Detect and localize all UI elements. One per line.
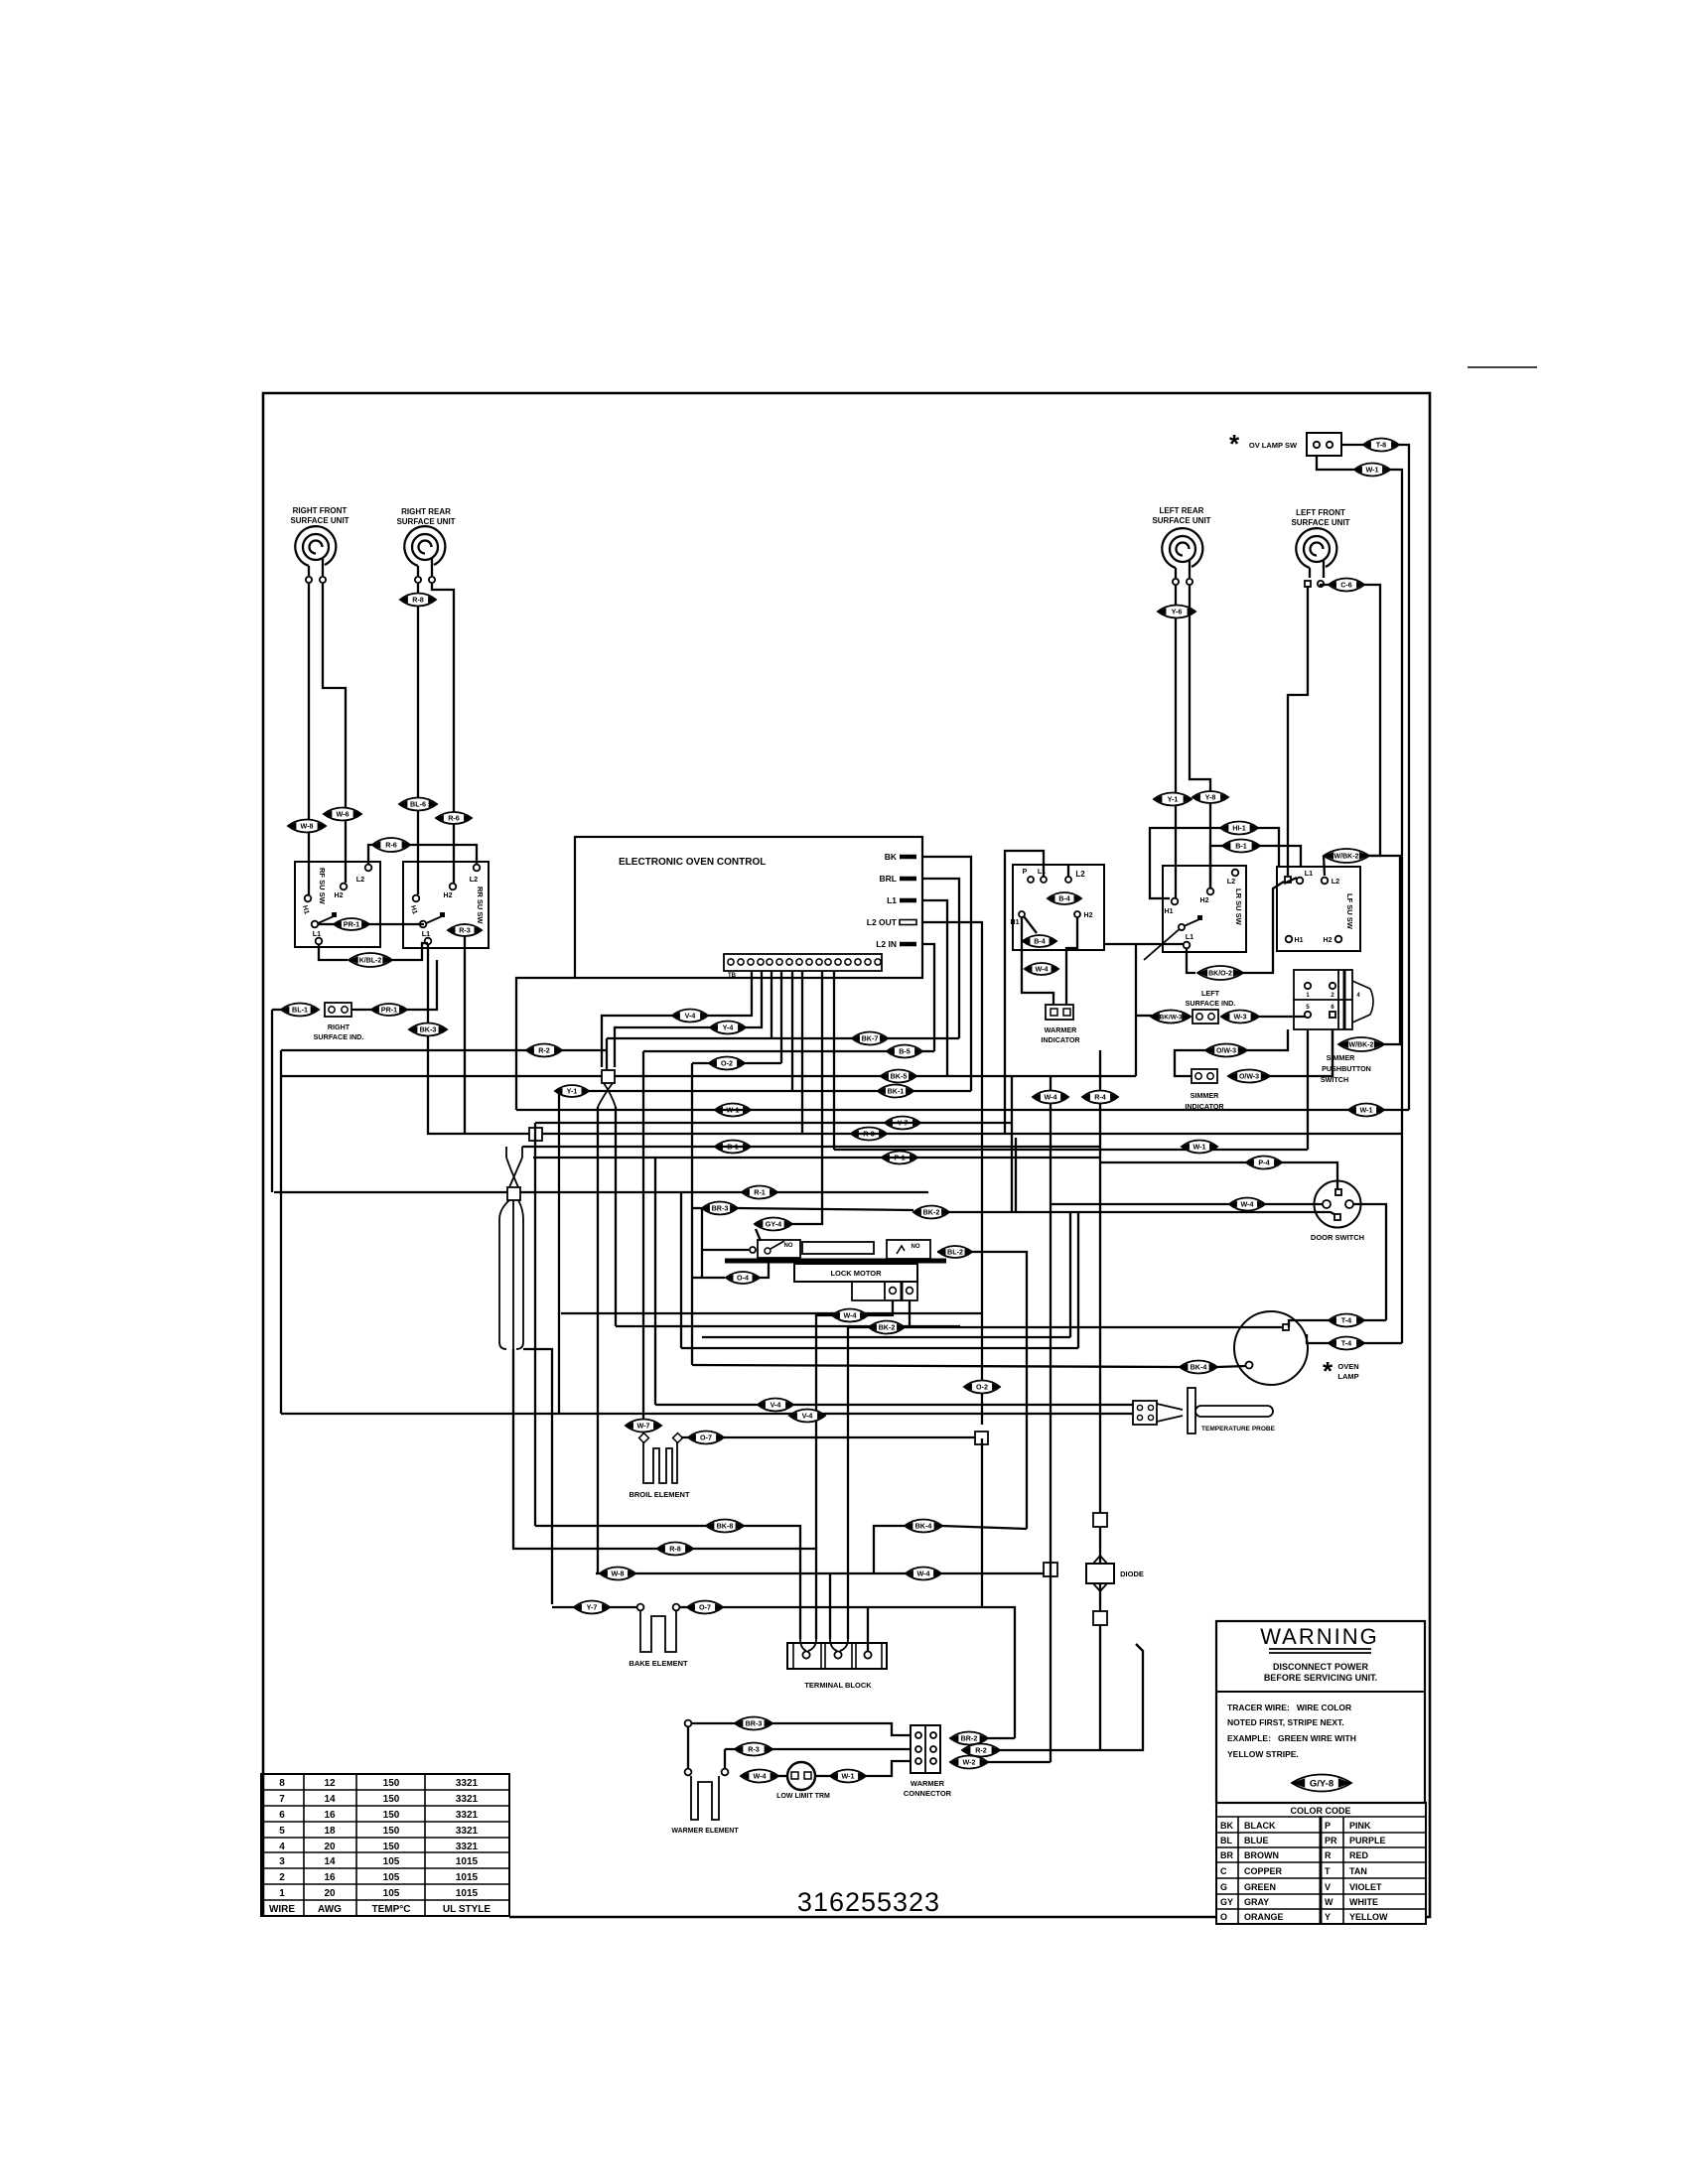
svg-text:OV LAMP SW: OV LAMP SW (1249, 441, 1298, 450)
svg-text:Y-6: Y-6 (1172, 608, 1183, 616)
label warmer connector 2 (904, 1789, 952, 1798)
right front surface unit switch RF SU SW (295, 862, 380, 947)
wire capsule center down (513, 1349, 523, 1549)
eoc strip pin 9 (806, 959, 812, 965)
lf coil terminal 2 (1318, 581, 1324, 587)
rr sw L2 (474, 865, 481, 872)
junction square O7 (975, 1432, 988, 1444)
wire row 1336 (616, 1325, 960, 1327)
connector R-3 warmer (735, 1743, 772, 1756)
svg-text:BROWN: BROWN (1244, 1850, 1279, 1860)
svg-text:L2 IN: L2 IN (876, 939, 897, 949)
wire rf coil t1 down to H1 (308, 584, 310, 894)
wire warmer L2 up (1067, 865, 1069, 877)
ov lamp sw pin 1 (1314, 442, 1320, 448)
svg-text:1: 1 (279, 1888, 285, 1899)
lf h1 label (1295, 937, 1304, 944)
wire V-4 probe row (655, 1404, 758, 1406)
connector BK-2 lamp (869, 1321, 905, 1334)
oven lamp switch OV LAMP SW (1307, 433, 1341, 456)
wire row 1118 (516, 1109, 1409, 1111)
wire rr L1 down (428, 944, 465, 1134)
svg-text:V-4: V-4 (802, 1412, 813, 1421)
svg-text:L1: L1 (313, 929, 321, 938)
warmer sw P (1028, 877, 1034, 883)
wire row 1560 (523, 1548, 657, 1550)
svg-text:R: R (1325, 1850, 1332, 1860)
lr sw H2 (1207, 888, 1214, 895)
connector BK-8 (706, 1520, 744, 1533)
junction square 3 (507, 1187, 520, 1200)
lr sw L2 (1232, 870, 1239, 877)
connector BL-1 (281, 1004, 319, 1017)
wire row 1166 (533, 1157, 1100, 1159)
svg-text:T-8: T-8 (1376, 441, 1386, 450)
wire L1 exit (922, 900, 947, 1076)
svg-text:TAN: TAN (1349, 1866, 1367, 1876)
warmer conn pin 2 (915, 1746, 921, 1752)
connector W-1 mid (1182, 1141, 1217, 1154)
wire row 1142 right (542, 1133, 1402, 1135)
svg-text:WIRE: WIRE (269, 1904, 295, 1915)
lock motor no-switch left (758, 1240, 800, 1258)
eoc strip pin 1 (728, 959, 734, 965)
label oven lamp 1 (1337, 1362, 1358, 1371)
connector G/Y-8 example (1292, 1775, 1351, 1792)
connector V-4 probe2 (789, 1410, 825, 1423)
simmer indicator lamp (1192, 1069, 1217, 1083)
svg-text:RIGHT REAR: RIGHT REAR (401, 507, 451, 516)
label lock motor (830, 1269, 882, 1278)
svg-text:LOW LIMIT TRM: LOW LIMIT TRM (776, 1793, 830, 1800)
left rear surface unit coil (1162, 528, 1202, 578)
svg-text:*: * (1229, 429, 1240, 459)
svg-text:O/W-3: O/W-3 (1216, 1048, 1236, 1055)
broil element terminal 2 (673, 1433, 683, 1443)
label L1 warmer (1038, 869, 1046, 876)
wire rf L1 down to K/BL-2 (319, 944, 348, 960)
wire Y-4 left (615, 1027, 710, 1067)
label warmer indicator 2 (1041, 1035, 1080, 1044)
rf sw L1 (316, 938, 323, 945)
svg-text:W-1: W-1 (841, 1772, 854, 1781)
left rear surface unit switch LR SU SW (1163, 866, 1246, 952)
lr h2 label (1200, 897, 1209, 904)
small square bottom (1093, 1611, 1107, 1625)
wire BR-2 right (988, 1737, 1015, 1739)
svg-text:SIMMER: SIMMER (1191, 1091, 1220, 1100)
wire vert 660 mid (654, 1158, 656, 1405)
wire gauge table (261, 1774, 509, 1916)
junction 3 bowtie (506, 1147, 522, 1187)
svg-text:W-4: W-4 (1035, 965, 1048, 974)
svg-text:105: 105 (383, 1872, 400, 1883)
svg-text:W-4: W-4 (916, 1570, 929, 1578)
simmer pushbutton switch box (1294, 970, 1352, 1029)
connector BK-4 lamp (1180, 1361, 1217, 1374)
svg-text:P-4: P-4 (1258, 1159, 1269, 1167)
door sw right pin (1345, 1200, 1353, 1208)
tracer line 1 (1227, 1703, 1351, 1712)
warmer conn pin 1 (915, 1732, 921, 1738)
eoc strip pin 11 (825, 959, 831, 965)
wire strip pin5 down (791, 971, 793, 1091)
connector BK/W-3 (1151, 1011, 1191, 1024)
connector R-6 L2 link (372, 838, 410, 852)
label left rear 2 (1152, 516, 1210, 525)
svg-text:NO: NO (784, 1243, 793, 1249)
svg-text:GREEN: GREEN (1244, 1882, 1276, 1892)
eoc stub BK (900, 855, 916, 860)
svg-text:R-1: R-1 (754, 1188, 766, 1197)
label simmer pushbutton 1 (1327, 1053, 1356, 1062)
warmer sw H2 (1074, 911, 1080, 917)
wire vert 648 broil (642, 1051, 644, 1433)
svg-text:W-7: W-7 (636, 1422, 649, 1431)
label simmer pushbutton 2 (1322, 1064, 1371, 1073)
connector K/BL-2 (349, 953, 392, 967)
label simmer pushbutton 3 (1321, 1075, 1348, 1084)
connector W-4 below warmer (1025, 963, 1058, 975)
svg-text:DOOR SWITCH: DOOR SWITCH (1311, 1233, 1364, 1242)
svg-text:L1: L1 (1305, 869, 1313, 878)
bake terminal 2 (673, 1604, 680, 1611)
label broil element (629, 1490, 690, 1499)
svg-text:6: 6 (1331, 1005, 1334, 1011)
wire BRL exit (922, 879, 959, 1038)
connector BK-4 low (905, 1520, 942, 1533)
svg-text:150: 150 (383, 1810, 400, 1821)
svg-text:O-7: O-7 (699, 1603, 711, 1612)
connector W-4 door (1229, 1198, 1265, 1211)
warning title (1260, 1624, 1379, 1649)
warmer conn pin 4 (930, 1732, 936, 1738)
svg-text:3321: 3321 (456, 1794, 479, 1805)
wire bake to O-7 (680, 1606, 687, 1608)
connector Y-8 (1193, 791, 1228, 803)
svg-text:Y-7: Y-7 (587, 1603, 598, 1612)
eoc strip pin 4 (758, 959, 764, 965)
wire row 1337 to lamp (905, 1326, 1282, 1328)
svg-text:L1: L1 (887, 895, 897, 905)
wire row 1358 right (1077, 1347, 1079, 1349)
svg-text:H1: H1 (1295, 937, 1304, 944)
connector R-2 (962, 1744, 1000, 1757)
wire left tall bus (280, 1050, 282, 1414)
svg-text:WARMER: WARMER (1045, 1025, 1078, 1034)
wire probe row (281, 1413, 1133, 1415)
svg-text:BK: BK (1220, 1821, 1233, 1831)
wire left edge to BL-1 (272, 1009, 281, 1011)
eoc terminal label L2 OUT (867, 917, 898, 927)
broil element terminal 1 (639, 1433, 649, 1443)
lr l1 label (1186, 932, 1193, 941)
wire vert 1078 (1069, 1213, 1071, 1337)
wire W-3 to pushbutton (1259, 1016, 1308, 1018)
svg-text:W-1: W-1 (1365, 466, 1378, 475)
label left front 2 (1291, 518, 1349, 527)
svg-text:OVEN: OVEN (1337, 1362, 1358, 1371)
svg-text:COPPER: COPPER (1244, 1866, 1283, 1876)
wire warmer mid down (724, 1749, 726, 1768)
lf sw L1 sq (1285, 877, 1291, 883)
connector Y-7 (574, 1601, 610, 1614)
connector V-4 probe1 (758, 1399, 793, 1412)
svg-text:BLACK: BLACK (1244, 1821, 1276, 1831)
connector B-5 (887, 1045, 922, 1058)
svg-text:TEMPERATURE PROBE: TEMPERATURE PROBE (1201, 1426, 1276, 1433)
label right front 2 (290, 516, 349, 525)
label H2 rf (335, 892, 344, 899)
svg-text:H2: H2 (444, 892, 453, 899)
wire BK-4 to lamp (1217, 1366, 1246, 1367)
svg-text:GY-4: GY-4 (766, 1220, 781, 1229)
connector W-1 right bus (1348, 1104, 1384, 1117)
wire row 1201 right (520, 1191, 928, 1193)
wire lf arm (1284, 878, 1297, 884)
pb num 5 (1306, 1005, 1310, 1011)
wire W-8 right (635, 1572, 906, 1574)
svg-text:5: 5 (1306, 1005, 1310, 1011)
connector V-4 mid (672, 1010, 708, 1023)
svg-text:SIMMER: SIMMER (1327, 1053, 1356, 1062)
warmer conn pin 5 (930, 1746, 936, 1752)
wire lock pivot terminal (702, 1249, 749, 1251)
svg-text:H2: H2 (1200, 897, 1209, 904)
bake element coil (640, 1611, 676, 1652)
wire P-4 left (1100, 1161, 1246, 1163)
connector W-1 row1118 (715, 1104, 751, 1117)
connector R-8 low (657, 1543, 693, 1556)
lf sw L2 (1322, 878, 1329, 885)
wire HI-1 left (1150, 828, 1220, 898)
svg-text:PR-1: PR-1 (381, 1006, 397, 1015)
label L2 rr (470, 875, 478, 884)
connector C-6 (1329, 579, 1364, 592)
connector BL-2 (938, 1246, 972, 1258)
svg-text:PR-1: PR-1 (344, 920, 359, 929)
lock motor thick bar (725, 1259, 946, 1264)
lf coil terminal 1 (1305, 581, 1311, 587)
svg-text:H1: H1 (301, 904, 310, 915)
wire PR-1 to vertical (407, 960, 437, 1010)
svg-text:2: 2 (1331, 993, 1334, 999)
eoc strip pin 10 (816, 959, 822, 965)
svg-text:SURFACE UNIT: SURFACE UNIT (396, 517, 455, 526)
svg-text:1015: 1015 (456, 1856, 479, 1867)
svg-text:LEFT: LEFT (1201, 989, 1220, 998)
wire row 1158 (834, 1149, 1308, 1151)
svg-text:V-4: V-4 (685, 1012, 696, 1021)
svg-text:DISCONNECT POWER: DISCONNECT POWER (1273, 1662, 1369, 1672)
tracer line 2 (1227, 1717, 1344, 1727)
pb num 2 (1331, 993, 1334, 999)
wire HI-1 right (1258, 828, 1279, 867)
svg-text:BL: BL (1220, 1836, 1232, 1845)
label right surface ind 1 (328, 1023, 351, 1031)
rr coil terminal 2 (429, 577, 435, 583)
door sw left pin (1323, 1200, 1331, 1208)
connector W-6 (324, 808, 361, 821)
pushbutton pin6 (1330, 1012, 1335, 1018)
svg-text:BR-3: BR-3 (712, 1204, 729, 1213)
svg-text:Y-1: Y-1 (1168, 795, 1179, 804)
wire row 1155 (522, 1146, 1100, 1148)
svg-text:WARMER ELEMENT: WARMER ELEMENT (671, 1828, 739, 1835)
wire row 1058 left (281, 1049, 608, 1051)
svg-text:V: V (1325, 1882, 1331, 1892)
svg-text:4: 4 (1356, 993, 1360, 999)
svg-text:BAKE ELEMENT: BAKE ELEMENT (629, 1659, 688, 1668)
svg-text:C-6: C-6 (1340, 581, 1352, 590)
wire row 1217 (692, 1207, 702, 1209)
lr switch arm (1144, 915, 1202, 960)
eoc strip pin 8 (796, 959, 802, 965)
svg-text:12: 12 (324, 1778, 336, 1789)
svg-text:RIGHT: RIGHT (328, 1023, 351, 1031)
eoc stub L1 (900, 898, 916, 903)
label H1 rr (409, 904, 418, 915)
wire rf coil t2 down jog to H2 (323, 584, 346, 883)
eoc strip pin 5 (767, 959, 772, 965)
junction square 2 (529, 1128, 542, 1141)
wire strip pin7 down (821, 971, 823, 1134)
lr sw H1 (1172, 898, 1179, 905)
wire sq1 top riser (606, 1038, 608, 1070)
wire T-8 to right bus (1399, 445, 1409, 1110)
svg-text:DIODE: DIODE (1120, 1570, 1144, 1578)
lf l2 label (1332, 877, 1339, 886)
svg-text:Y-1: Y-1 (567, 1087, 578, 1096)
wire BK exit (922, 857, 971, 1091)
svg-text:PINK: PINK (1349, 1821, 1371, 1831)
svg-text:L2: L2 (470, 875, 478, 884)
label right rear 2 (396, 517, 455, 526)
label oven lamp 2 (1337, 1372, 1358, 1381)
wire row 1585 (596, 1572, 600, 1574)
wire rf L2 up (368, 845, 373, 864)
connector R-1 (742, 1186, 777, 1199)
svg-text:COLOR CODE: COLOR CODE (1290, 1806, 1350, 1816)
connector R-8 (400, 594, 436, 607)
wire strip pin6 down (801, 971, 803, 1134)
connector W-4 lock (832, 1309, 868, 1322)
wire warmer mid row (725, 1748, 911, 1750)
svg-text:GRAY: GRAY (1244, 1897, 1269, 1907)
svg-text:BLUE: BLUE (1244, 1836, 1269, 1845)
svg-text:1: 1 (1306, 993, 1310, 999)
svg-text:NOTED FIRST, STRIPE NEXT.: NOTED FIRST, STRIPE NEXT. (1227, 1717, 1344, 1727)
top-right tick mark (1468, 366, 1537, 368)
svg-text:O: O (1220, 1912, 1227, 1922)
electronic oven control box (575, 837, 922, 978)
eoc terminal label L2 IN (876, 939, 897, 949)
svg-text:O-2: O-2 (976, 1383, 988, 1392)
connector BK/O-2 (1197, 966, 1243, 980)
svg-text:AWG: AWG (318, 1904, 342, 1915)
svg-text:1015: 1015 (456, 1888, 479, 1899)
svg-text:B-4: B-4 (1034, 937, 1046, 946)
wire BK-4 low right (941, 1526, 1027, 1529)
svg-text:BK-3: BK-3 (420, 1025, 437, 1034)
wire vert 836 (829, 1573, 831, 1639)
label L1 rr (422, 929, 430, 938)
svg-text:R-8: R-8 (669, 1545, 681, 1554)
connector R-3 rr (448, 924, 482, 936)
warmer sw L1 (1041, 877, 1047, 883)
warmer wire terminal (685, 1720, 692, 1727)
svg-text:VIOLET: VIOLET (1349, 1882, 1382, 1892)
small square top (1093, 1513, 1107, 1527)
svg-text:V-4: V-4 (771, 1401, 781, 1410)
lr coil terminal 1 (1173, 579, 1179, 585)
svg-text:B-5: B-5 (899, 1047, 911, 1056)
svg-text:H2: H2 (1324, 937, 1333, 944)
connector T-4 b (1329, 1337, 1364, 1350)
wire vert 854b (847, 1573, 849, 1639)
lf sw L1 (1297, 878, 1304, 885)
label RF SU SW (318, 868, 327, 905)
wire K/BL-2 to rr L1 (392, 943, 428, 960)
svg-text:H2: H2 (335, 892, 344, 899)
connector B-4 warmer1 (1048, 892, 1081, 904)
svg-text:PUSHBUTTON: PUSHBUTTON (1322, 1064, 1371, 1073)
label TB (728, 973, 737, 979)
rr sw L1 (425, 938, 432, 945)
wire BK/O-2 right (1243, 882, 1284, 973)
connector W-7 (626, 1420, 661, 1433)
label OV LAMP SW (1249, 441, 1298, 450)
eoc strip pin 12 (835, 959, 841, 965)
wire strip pin3 down (771, 971, 772, 1038)
wire row 1537 (535, 1525, 707, 1527)
wire T-4b right (1364, 1342, 1402, 1344)
wire V-4 left (602, 1016, 672, 1067)
label simmer indicator 2 (1185, 1102, 1224, 1111)
wire L2 IN exit (922, 944, 934, 1051)
svg-text:SURFACE IND.: SURFACE IND. (1186, 999, 1236, 1008)
wire rf L1 arm to rr (318, 923, 334, 925)
svg-text:TRACER WIRE: WIRE COLOR: TRACER WIRE: WIRE COLOR (1227, 1703, 1351, 1712)
svg-text:W-1: W-1 (1193, 1143, 1205, 1152)
svg-text:L2: L2 (356, 875, 364, 884)
wire O/W-3 top left (1175, 1050, 1207, 1076)
wire O-7 broil (681, 1436, 688, 1438)
wire 1058 vertical (1050, 1076, 1052, 1762)
svg-text:BK-1: BK-1 (888, 1087, 905, 1096)
label left front 1 (1296, 508, 1345, 517)
wire warmer H1 down (1022, 917, 1053, 1005)
warmer element terminal 2 (722, 1769, 729, 1776)
svg-text:O-2: O-2 (721, 1059, 733, 1068)
svg-text:CONNECTOR: CONNECTOR (904, 1789, 952, 1798)
wire diode vertical (1099, 1050, 1101, 1750)
svg-text:R-2: R-2 (538, 1046, 550, 1055)
terminal block body (787, 1643, 887, 1669)
border frame (263, 393, 1430, 1917)
svg-text:WHITE: WHITE (1349, 1897, 1378, 1907)
svg-text:3321: 3321 (456, 1826, 479, 1837)
wire R-2 right (1000, 1644, 1143, 1750)
label H1 rf (301, 904, 310, 915)
svg-text:RED: RED (1349, 1850, 1369, 1860)
wire row 1201 left (274, 1191, 507, 1193)
wire warmer H2 down (1066, 917, 1077, 1005)
svg-text:LR SU SW: LR SU SW (1234, 888, 1243, 926)
svg-text:W-3: W-3 (1233, 1013, 1246, 1022)
svg-text:BK-7: BK-7 (862, 1034, 879, 1043)
wire vert 1086 (1077, 1213, 1079, 1348)
